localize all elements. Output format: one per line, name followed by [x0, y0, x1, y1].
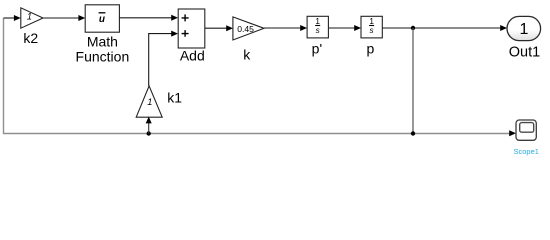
Math Function block U1 [85, 5, 119, 32]
wire Math Function to Add input 1 [119, 17, 172, 19]
svg-text:u: u [99, 14, 105, 25]
wire gain k to integrator p' [264, 27, 301, 29]
wire p' to integrator p [328, 27, 355, 29]
svg-text:k1: k1 [167, 90, 182, 106]
integrator block p (1/s) [361, 16, 382, 38]
svg-text:1: 1 [519, 21, 528, 38]
wire into gain k2 [4, 17, 16, 19]
gain k1 (points up) [136, 86, 162, 117]
junction node k1 input [147, 131, 151, 135]
svg-text:Function: Function [76, 48, 130, 64]
svg-text:p: p [367, 41, 375, 57]
svg-text:k: k [243, 47, 251, 63]
svg-text:1: 1 [147, 97, 152, 107]
svg-text:1: 1 [315, 17, 320, 26]
svg-text:Add: Add [180, 47, 205, 63]
wire p to Out1 [382, 27, 501, 29]
gain k value 0.45 [233, 17, 264, 40]
Out1 outport block [507, 16, 541, 40]
wire bottom line up into gain k1 [148, 123, 150, 134]
svg-text:Math: Math [87, 33, 118, 49]
wire junction down to bottom line [412, 28, 414, 134]
svg-text:0.45: 0.45 [237, 24, 254, 34]
svg-text:1: 1 [369, 17, 374, 26]
wire feedback loop (left vertical + bottom horizontal) [4, 18, 511, 134]
Scope1 block [516, 120, 536, 140]
svg-text:k2: k2 [23, 30, 38, 46]
wire gain k1 to Add input 2 [149, 34, 173, 86]
svg-text:s: s [370, 26, 374, 35]
svg-text:p': p' [312, 41, 322, 57]
svg-text:Out1: Out1 [509, 44, 540, 60]
gain k2 [21, 8, 43, 28]
wire k2 to Math Function [43, 17, 80, 19]
wire arrow into Scope1 [509, 130, 516, 136]
svg-text:1: 1 [27, 12, 32, 22]
wire Add to gain k [205, 27, 227, 29]
svg-text:s: s [316, 26, 320, 35]
svg-text:Scope1: Scope1 [513, 147, 538, 156]
Add block [178, 9, 205, 48]
junction node top [411, 26, 415, 30]
integrator block p' (1/s) [307, 16, 328, 38]
junction node bottom [411, 131, 415, 135]
